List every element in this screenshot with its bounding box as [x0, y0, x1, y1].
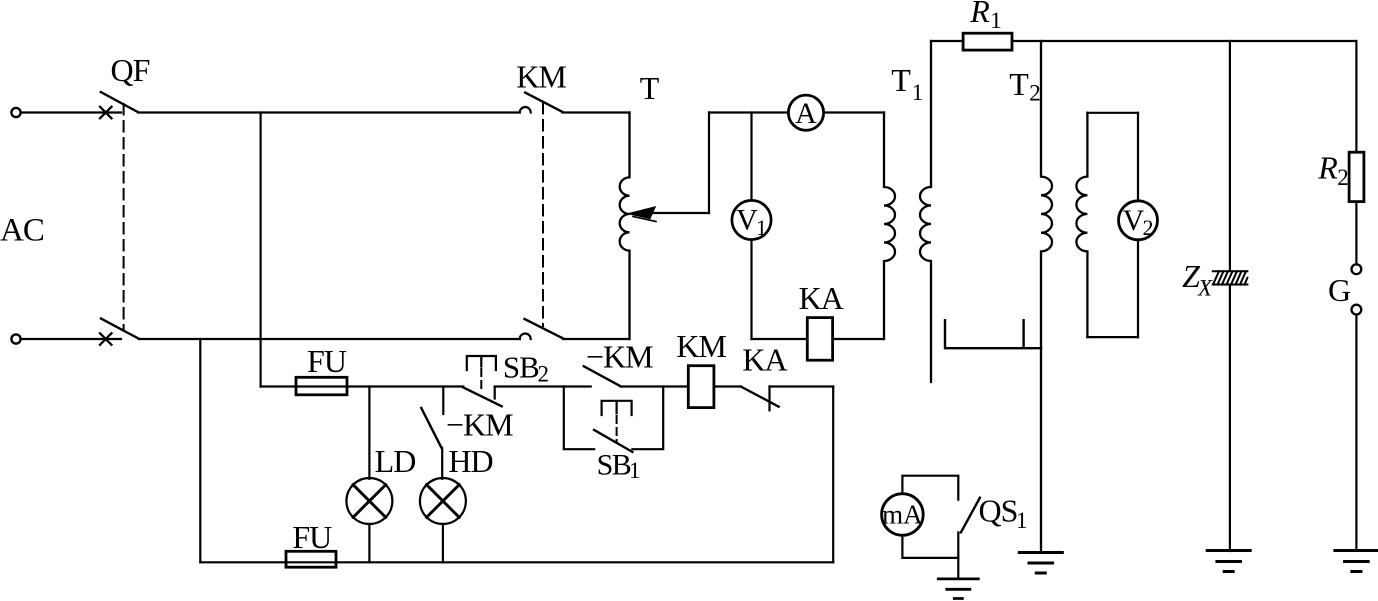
svg-text:FU: FU: [307, 343, 347, 379]
push button SB2 right terminal: [494, 387, 496, 399]
wire L1 KM to T: [562, 111, 629, 113]
impedance Zx hatched block: [1213, 271, 1248, 284]
svg-text:G: G: [1328, 272, 1351, 308]
breaker QF pole2 contact X: [100, 333, 112, 345]
svg-text:T: T: [1009, 66, 1029, 102]
contact -KM for HD: terminal: [442, 387, 444, 415]
wire SB2 to -KM contact: [495, 385, 591, 387]
terminal top AC input: [11, 108, 20, 117]
wire top to R1: [931, 40, 963, 42]
svg-text:T: T: [891, 62, 911, 98]
wire V2 loop bottom: [1087, 336, 1138, 338]
svg-text:QF: QF: [111, 52, 150, 88]
wire mA loop top: [902, 476, 958, 500]
contactor KM linkage (dashed): [542, 103, 544, 326]
autotransformer T winding: [620, 113, 630, 340]
resistor R1: [963, 33, 1012, 50]
wire HD switch to lamp: [441, 448, 443, 479]
contact -KM for HD: blade: [421, 408, 441, 448]
wire HD to bottom rail: [442, 524, 444, 562]
fuse FU bottom: [286, 551, 336, 567]
svg-text:KM: KM: [516, 59, 566, 95]
wire control drop from L1: [260, 113, 262, 387]
svg-text:SB: SB: [503, 350, 539, 385]
contactor KM pole2 blade: [525, 319, 564, 338]
push button SB1 blade: [594, 430, 632, 452]
svg-text:−KM: −KM: [586, 339, 653, 375]
resistor R2: [1349, 152, 1364, 201]
wire KA coil to T1: [833, 338, 884, 340]
transformer T1 secondary winding: [920, 41, 931, 382]
ground Zx: [1207, 551, 1250, 572]
contact KA terminal: [768, 387, 770, 411]
contactor KM pole1 blade: [525, 93, 562, 112]
wire control drop left: [199, 339, 201, 562]
voltmeter V2: [1119, 201, 1158, 240]
push button SB1 branch left: [564, 387, 594, 450]
svg-text:V: V: [1123, 204, 1145, 237]
ground mA: [938, 579, 978, 599]
breaker QF linkage (dashed): [123, 104, 125, 329]
svg-text:R: R: [1317, 150, 1338, 186]
shield bracket: [945, 320, 1041, 348]
terminal bottom AC input: [11, 334, 20, 343]
wire R2 to gap: [1355, 202, 1357, 265]
transformer T1 primary winding: [884, 113, 895, 340]
svg-text:SB: SB: [597, 449, 631, 482]
wire control right drop: [832, 387, 834, 563]
switch QS1 blade: [961, 498, 980, 533]
push button SB2 blade: [463, 387, 501, 406]
wire R1 to R2 branch: [1012, 40, 1356, 42]
wire Zx branch: [1229, 41, 1231, 551]
svg-text:2: 2: [1029, 81, 1041, 106]
svg-text:R: R: [969, 0, 990, 29]
wire V1 bottom to KA coil: [752, 338, 808, 340]
svg-text:mA: mA: [882, 500, 923, 530]
svg-text:V: V: [736, 204, 758, 237]
fuse FU top: [296, 377, 347, 395]
breaker QF pole1 blade: [101, 92, 139, 112]
contact KA blade: [741, 387, 779, 407]
wire V2 loop top: [1087, 112, 1138, 114]
svg-text:2: 2: [1143, 215, 1154, 240]
svg-text:LD: LD: [375, 443, 416, 479]
wire L2 from terminal to QF: [21, 338, 121, 340]
wire V2 loop right: [1137, 113, 1139, 337]
svg-text:KM: KM: [676, 328, 726, 364]
wire control FU row: [261, 385, 464, 387]
svg-text:KA: KA: [799, 280, 844, 316]
autotransformer T wiper arrow: [651, 212, 709, 214]
push button SB1 actuator: [602, 401, 632, 415]
svg-text:A: A: [795, 97, 817, 130]
svg-text:−KM: −KM: [446, 407, 513, 443]
voltmeter V1: [732, 200, 771, 239]
svg-text:FU: FU: [292, 519, 332, 555]
wire KM coil to KA contact: [714, 385, 741, 387]
contactor coil KM: [688, 366, 714, 408]
wire V1 riser: [750, 113, 752, 340]
spark gap G upper ball: [1352, 264, 1362, 274]
milliammeter mA: [882, 494, 924, 536]
ground T2: [1019, 553, 1062, 574]
spark gap G lower ball: [1352, 305, 1362, 315]
svg-text:HD: HD: [448, 443, 492, 479]
svg-text:1: 1: [629, 458, 641, 483]
contactor KM pole1 seat: [520, 107, 531, 113]
svg-text:1: 1: [756, 215, 767, 240]
svg-text:1: 1: [990, 8, 1002, 33]
svg-text:1: 1: [1016, 508, 1028, 533]
svg-text:2: 2: [538, 362, 550, 387]
wire control bottom rail: [200, 561, 833, 563]
relay coil KA: [807, 318, 832, 361]
svg-text:X: X: [1197, 276, 1213, 301]
wire KA to right drop: [770, 385, 834, 387]
contact -KM main blade: [584, 366, 621, 386]
lamp LD: [346, 478, 392, 524]
svg-text:QS: QS: [979, 493, 1018, 529]
svg-text:T: T: [640, 70, 660, 106]
wire L2 QF to KM: [139, 338, 520, 340]
transformer T2 secondary winding + V2 loop: [1076, 113, 1087, 337]
breaker QF pole1 contact X: [100, 107, 112, 119]
transformer T2 primary winding: [1041, 41, 1052, 553]
wire wiper riser: [708, 113, 710, 214]
svg-text:1: 1: [912, 80, 924, 105]
svg-text:KA: KA: [742, 342, 787, 378]
contactor KM pole2 seat: [520, 334, 531, 340]
wire mA bottom: [902, 536, 958, 558]
ground R2 branch: [1335, 551, 1378, 572]
ammeter A: [788, 95, 823, 130]
wire R2 branch top: [1355, 41, 1357, 152]
push button SB2 actuator: [467, 356, 496, 370]
wire LD to bottom rail: [368, 524, 370, 562]
lamp HD: [420, 478, 466, 524]
svg-text:2: 2: [1337, 165, 1349, 190]
breaker QF pole2 blade: [101, 319, 139, 339]
svg-text:AC: AC: [0, 213, 44, 249]
wire L1 from terminal to QF: [21, 111, 121, 113]
push button SB1 branch right: [632, 387, 663, 450]
wire L1 QF to KM: [138, 111, 519, 113]
wire -KM to KM coil: [621, 385, 688, 387]
wire L1 tap to T1: [709, 111, 884, 113]
wire QS1 bottom to ground: [957, 532, 959, 579]
wire L2 KM to T: [563, 338, 630, 340]
wire LD branch: [368, 387, 370, 479]
wire gap to ground: [1355, 315, 1357, 551]
